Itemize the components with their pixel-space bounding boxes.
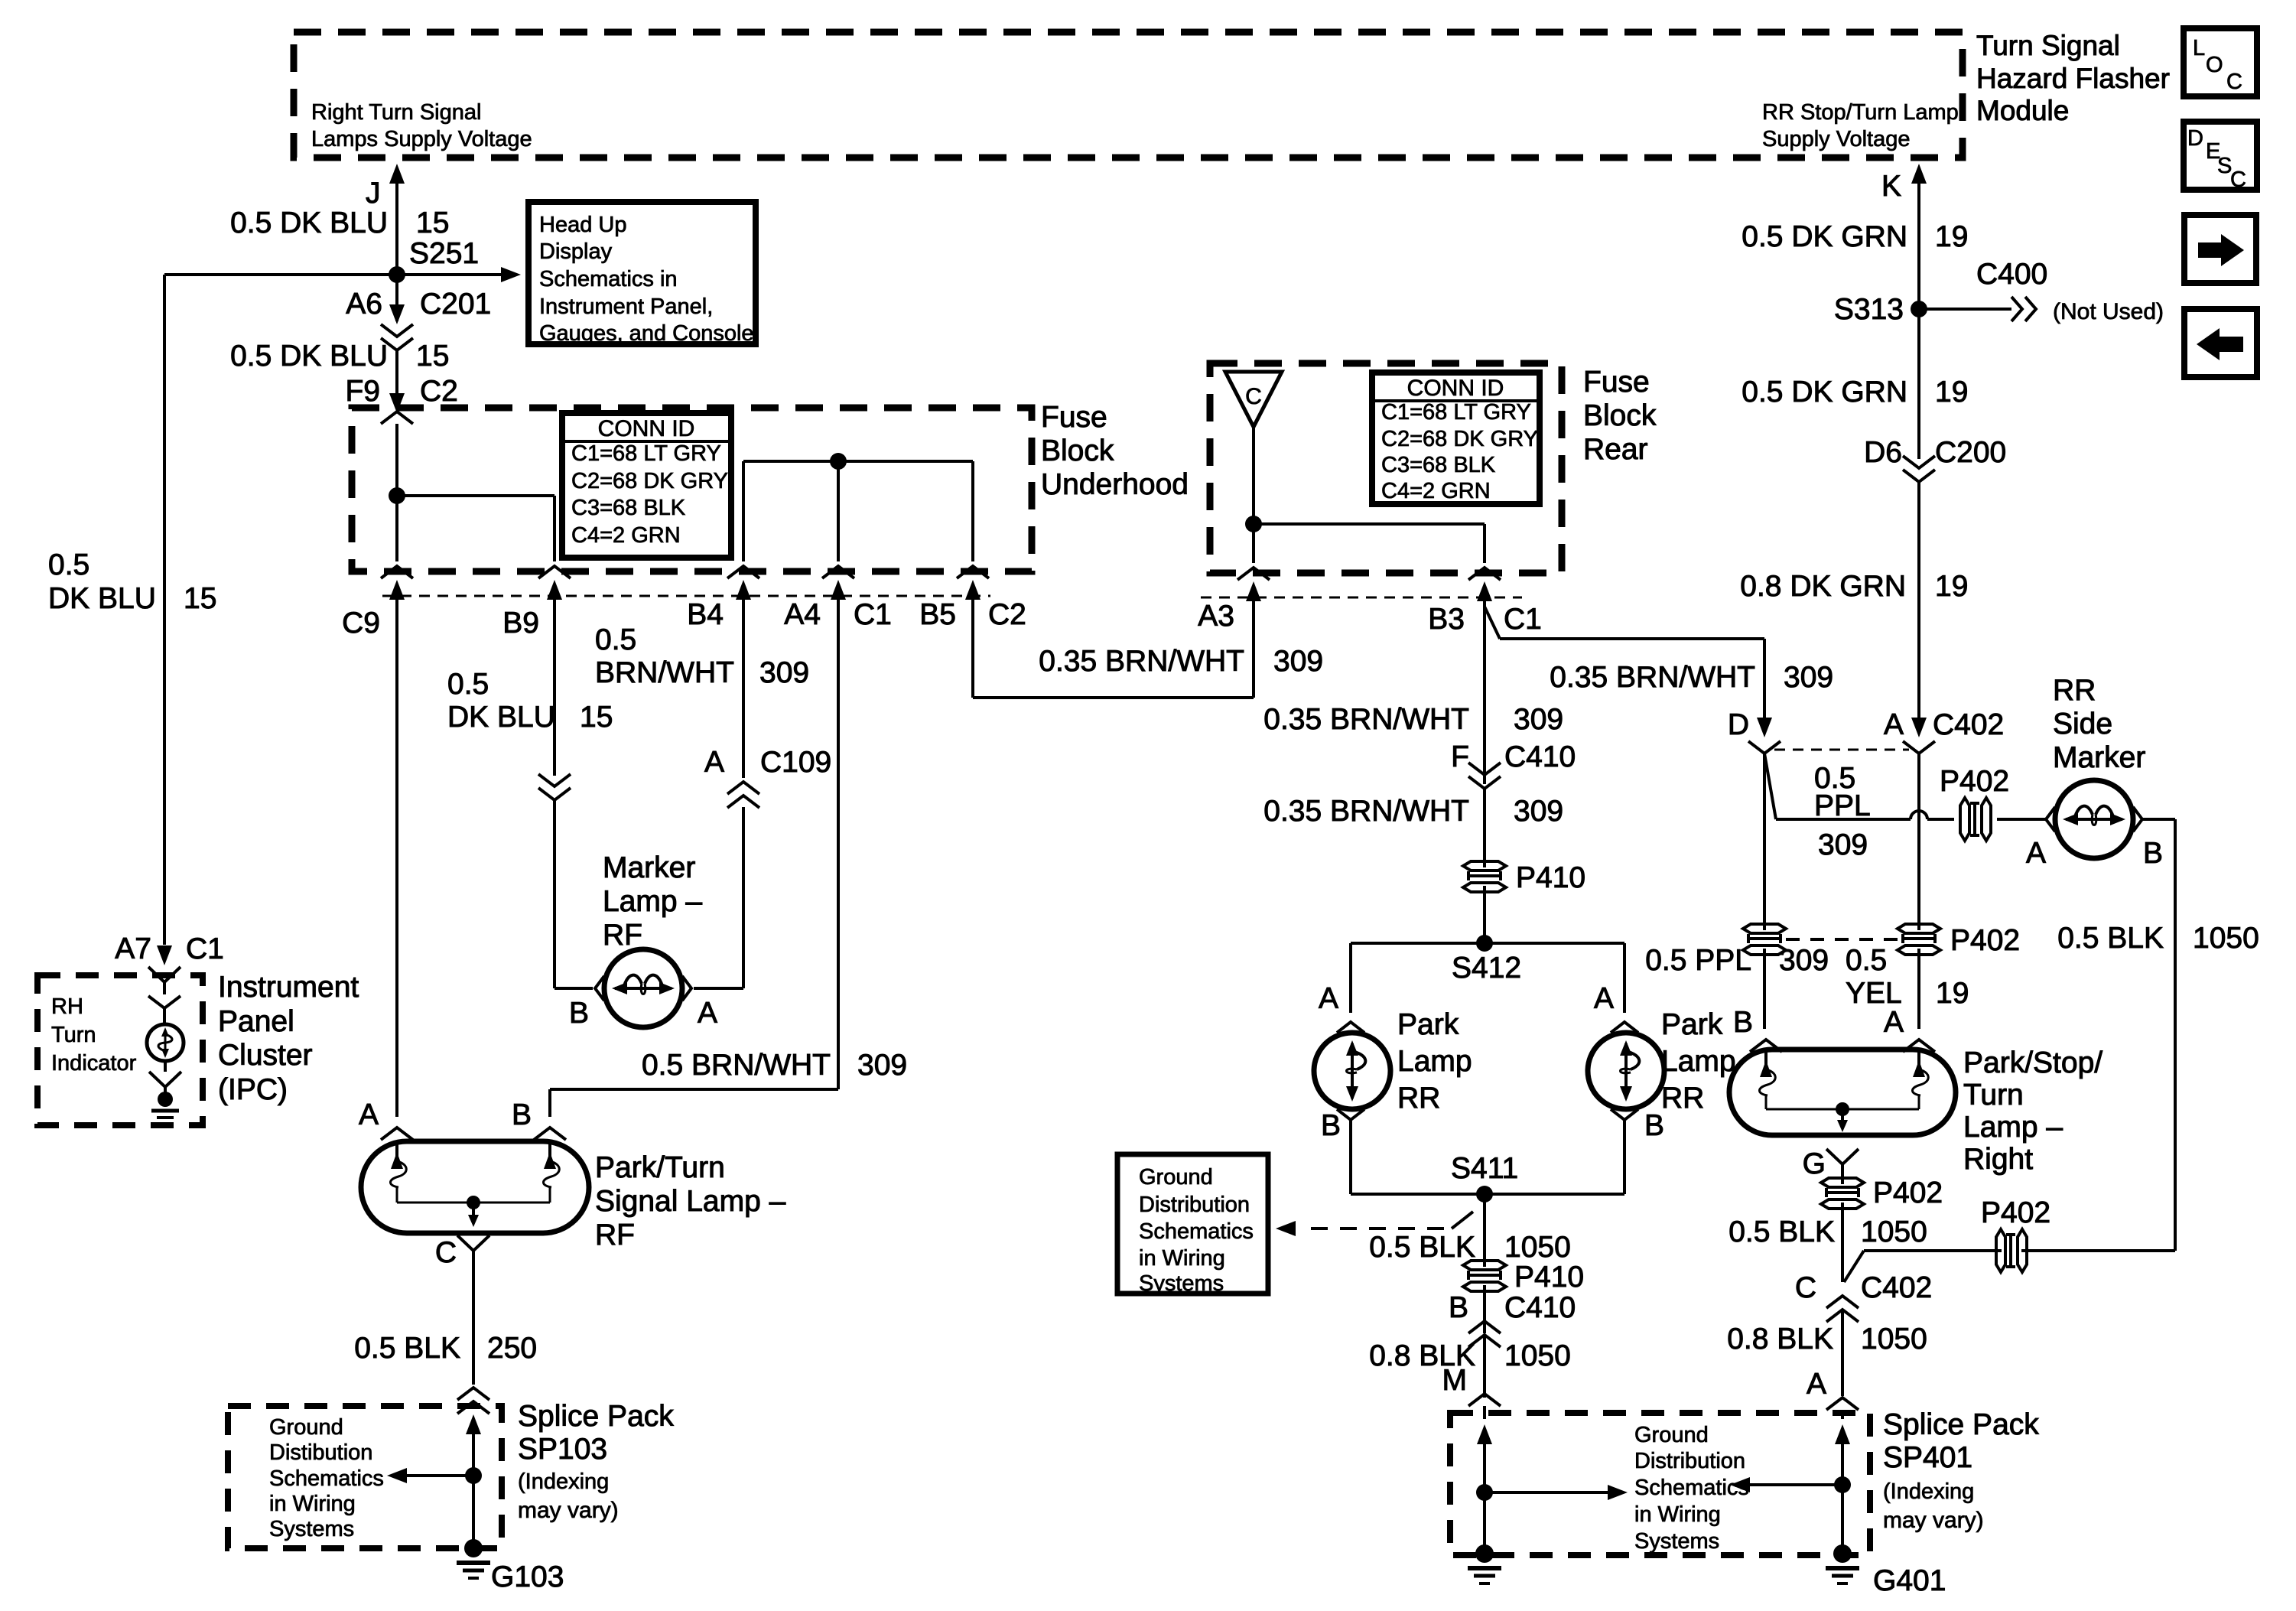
wire C402 C to splice pack A [1841,1310,1844,1396]
svg-text:G103: G103 [491,1561,564,1593]
wire C402 A down to park/stop/turn lamp A [1917,753,1920,930]
connector C410 chevrons F [1468,763,1501,775]
svg-text:A: A [359,1098,379,1131]
ground G401 [1833,1544,1852,1563]
svg-text:C200: C200 [1935,436,2006,469]
svg-text:PPL: PPL [1814,789,1871,822]
wire marker lamp A up to C109 [694,987,743,990]
svg-text:C400: C400 [1976,258,2047,291]
svg-text:F9: F9 [345,375,380,408]
svg-text:P410: P410 [1514,1261,1584,1294]
svg-text:15: 15 [184,582,216,615]
connector P402 grommet on G wire [1821,1178,1864,1187]
svg-text:Park: Park [1661,1008,1723,1041]
svg-text:Display: Display [539,239,613,264]
svg-text:0.5: 0.5 [48,548,89,581]
wire S313 to C400 not used [1919,308,2011,311]
svg-text:Indicator: Indicator [51,1051,137,1076]
icon LOC box [2184,28,2257,96]
svg-text:RR: RR [2053,674,2096,707]
svg-text:C3=68 BLK: C3=68 BLK [1381,453,1496,477]
svg-text:G401: G401 [1873,1564,1946,1597]
svg-text:D6: D6 [1864,436,1902,469]
pin arrow B3/C1 [1477,581,1492,601]
svg-text:Fuse: Fuse [1041,401,1107,434]
svg-text:L: L [2193,36,2205,60]
svg-text:F: F [1451,740,1469,773]
junction S411 [1476,1186,1493,1203]
svg-text:B5: B5 [919,598,956,631]
connector B (marker lamp) chevrons [538,774,571,786]
connector C402 C chevrons [1826,1296,1859,1308]
svg-text:Schematics: Schematics [269,1466,384,1491]
svg-text:A4: A4 [784,598,821,631]
table CONN ID underhood [562,413,731,558]
wire S412 to left park lamp A [1349,943,1352,1013]
svg-text:15: 15 [580,701,613,734]
svg-text:C1: C1 [1504,603,1542,636]
connector chevron C2 entry at box top [381,412,413,424]
svg-text:C410: C410 [1504,1291,1576,1324]
svg-text:YEL: YEL [1846,977,1902,1010]
svg-text:P410: P410 [1516,861,1585,894]
component box Fuse Block Rear [1210,363,1562,573]
wire PPL to park/stop/turn B [1763,949,1766,1029]
wire A into splice pack SP401 [1841,1410,1844,1419]
box Head Up Display note [528,202,756,344]
svg-text:DK BLU: DK BLU [48,582,156,615]
box ground distribution schematics reference (solid) [1117,1154,1268,1294]
wire C201 to C2 of fuse block underhood [395,350,398,395]
svg-text:Side: Side [2053,708,2112,740]
wire M into ground distribution box [1483,1406,1486,1419]
icon left-arrow box [2184,309,2257,377]
svg-text:C402: C402 [1933,708,2004,741]
connector C410 chevrons B [1468,1321,1501,1333]
svg-text:C410: C410 [1504,740,1576,773]
icon DESC box [2184,122,2257,190]
wire inside underhood C2 to splice [395,424,398,496]
component box Fuse Block Underhood [352,408,1032,571]
svg-text:Splice Pack: Splice Pack [518,1400,674,1433]
svg-text:Rear: Rear [1583,433,1648,466]
svg-text:Schematics in: Schematics in [539,267,678,291]
svg-text:0.5 DK GRN: 0.5 DK GRN [1742,376,1907,408]
svg-text:D: D [2187,126,2203,151]
svg-text:0.5 BLK: 0.5 BLK [1729,1216,1835,1248]
connector face C1/C2 below underhood (thin dashed) [382,595,990,597]
svg-text:RF: RF [603,919,642,952]
svg-text:A: A [698,997,717,1030]
svg-text:C1: C1 [186,932,224,965]
svg-text:Distribution: Distribution [1139,1193,1250,1217]
svg-text:Underhood: Underhood [1041,468,1189,501]
svg-text:P402: P402 [1950,924,2020,957]
svg-text:Ground: Ground [269,1415,343,1440]
wire S251 horizontal to Head Up Display arrow [397,273,501,276]
svg-text:B: B [512,1098,532,1131]
svg-text:RR: RR [1661,1082,1704,1115]
chevron B4 at box bottom [727,566,759,578]
svg-text:Systems: Systems [1634,1529,1719,1554]
svg-text:19: 19 [1935,376,1968,408]
wire P410 to C410 B [1483,1285,1486,1333]
svg-text:C2=68 DK GRY: C2=68 DK GRY [1381,427,1538,451]
svg-text:B: B [1321,1109,1341,1142]
svg-text:Block: Block [1583,399,1657,432]
svg-text:0.5 BLK: 0.5 BLK [2057,922,2164,955]
svg-text:B: B [2143,837,2163,870]
lamp Park Lamp RR left [1314,1033,1390,1109]
svg-text:Ground: Ground [1634,1423,1709,1447]
svg-text:B: B [1449,1291,1468,1324]
svg-text:Lamp: Lamp [1397,1045,1472,1078]
svg-text:C402: C402 [1861,1271,1932,1304]
svg-text:309: 309 [1273,645,1323,678]
wire PPL horizontal to RR side marker (with hop over DK GRN) [1776,818,1911,821]
junction ground distribution left [1476,1484,1493,1501]
svg-text:RR Stop/Turn Lamp: RR Stop/Turn Lamp [1762,100,1959,125]
chevron B9 at box bottom [538,566,571,578]
wire indicator to ground [164,1061,167,1072]
wire triangle to junction [1252,427,1255,524]
svg-text:Lamp –: Lamp – [1963,1111,2063,1144]
wire down to C402 pin D [1763,639,1766,719]
svg-text:Splice Pack: Splice Pack [1883,1408,2039,1441]
connector P410 grommet lower [1463,1261,1506,1270]
svg-text:19: 19 [1935,220,1968,253]
svg-text:Ground: Ground [1139,1165,1213,1190]
svg-text:C: C [2230,168,2246,192]
fuse symbol triangle C in fuse block rear [1225,372,1282,427]
svg-text:0.35 BRN/WHT: 0.35 BRN/WHT [1039,645,1244,678]
svg-text:0.5 DK BLU: 0.5 DK BLU [230,340,388,373]
svg-text:0.5 BLK: 0.5 BLK [354,1332,460,1365]
svg-text:(Indexing: (Indexing [518,1469,609,1494]
svg-text:in Wiring: in Wiring [1139,1246,1225,1271]
svg-text:C1=68 LT GRY: C1=68 LT GRY [1381,400,1531,425]
wire C410 to P410 [1483,789,1486,867]
dashed arrow from S411 to reference box [1311,1227,1452,1230]
svg-text:G: G [1803,1147,1826,1180]
svg-text:0.5 BRN/WHT: 0.5 BRN/WHT [642,1049,831,1082]
svg-text:15: 15 [416,207,449,239]
svg-text:S412: S412 [1452,952,1521,984]
svg-text:RF: RF [595,1219,635,1251]
svg-text:C109: C109 [760,746,831,779]
junction inside underhood [389,487,405,504]
junction S412 [1476,935,1493,952]
connector face C402 (thin dashed) [1774,749,1909,751]
wire C terminal down [457,1235,489,1251]
chevron A3 at box bottom [1237,568,1270,580]
svg-text:Fuse: Fuse [1583,366,1650,399]
wire S313 down to C200 [1917,309,1920,459]
svg-text:0.35 BRN/WHT: 0.35 BRN/WHT [1263,795,1469,828]
wire C410 B to splice pack M [1483,1335,1486,1398]
svg-text:0.5 DK GRN: 0.5 DK GRN [1742,220,1907,253]
dashed link between P402 pair [1786,938,1898,941]
svg-text:(Not Used): (Not Used) [2053,299,2164,324]
connector C109 chevrons [727,782,759,794]
wire side marker B horizontal into C402 C [1864,1249,2002,1252]
svg-text:(Indexing: (Indexing [1883,1479,1974,1504]
connector face below fuse block rear (thin dashed) [1201,597,1522,599]
junction fuse block rear [1245,516,1262,532]
pin arrow B5/C2 [965,580,981,600]
svg-text:0.35 BRN/WHT: 0.35 BRN/WHT [1550,661,1755,694]
svg-text:B3: B3 [1428,603,1465,636]
svg-text:19: 19 [1936,977,1969,1010]
svg-text:A: A [1884,708,1904,741]
wire S411 bus [1351,1193,1624,1196]
svg-text:309: 309 [857,1049,907,1082]
wire S251 down to connector C201 [395,282,398,321]
svg-text:A3: A3 [1198,600,1234,633]
connector P402 grommet pair on PPL vertical [1743,924,1786,933]
junction underhood distribution [830,453,847,470]
svg-text:0.5: 0.5 [1846,944,1887,977]
connector P402 grommet pair on YEL vertical [1898,924,1940,933]
svg-text:19: 19 [1935,570,1968,603]
svg-text:Cluster: Cluster [218,1039,313,1072]
svg-text:K: K [1881,170,1901,203]
module box: Turn Signal Hazard Flasher Module [294,32,1963,158]
svg-text:0.5 DK BLU: 0.5 DK BLU [230,207,388,239]
svg-text:C3=68 BLK: C3=68 BLK [571,496,686,520]
svg-text:309: 309 [1514,795,1563,828]
svg-text:C1=68 LT GRY: C1=68 LT GRY [571,441,721,466]
svg-text:A: A [1884,1006,1904,1039]
svg-text:0.35 BRN/WHT: 0.35 BRN/WHT [1263,703,1469,736]
svg-text:309: 309 [1514,703,1563,736]
wire underhood junction to B9 [397,494,554,497]
svg-text:0.5 BLK: 0.5 BLK [1369,1231,1475,1264]
svg-text:B: B [569,997,589,1030]
lamp RR Side Marker [2055,780,2133,858]
chevron B5 at box bottom [957,566,989,578]
svg-text:P402: P402 [1981,1196,2050,1229]
svg-text:in Wiring: in Wiring [1634,1502,1721,1527]
svg-text:15: 15 [416,340,449,373]
svg-text:Right: Right [1963,1143,2033,1176]
svg-text:B: B [1644,1109,1664,1142]
svg-text:Marker: Marker [2053,741,2145,774]
svg-text:Block: Block [1041,434,1114,467]
wire S251 left branch [164,273,397,276]
svg-text:Panel: Panel [218,1005,294,1038]
svg-text:309: 309 [759,656,809,689]
wire junction to A3 [1252,524,1255,563]
svg-text:O: O [2206,53,2223,77]
wire into SP103 [472,1401,475,1409]
wire underhood junction down to C9 [395,496,398,561]
wire P410 to splice S412 [1483,886,1486,943]
connector P410 grommet [1463,861,1506,871]
svg-text:Distribution: Distribution [1634,1449,1745,1473]
svg-text:A: A [1319,982,1338,1015]
box splice pack SP103 (dashed) [228,1406,502,1548]
connector C201 chevrons [381,324,413,337]
svg-text:Lamp –: Lamp – [603,885,702,918]
connector C200 chevrons [1903,456,1935,468]
svg-text:309: 309 [1779,944,1829,977]
svg-text:1050: 1050 [1861,1216,1927,1248]
lamp Park Lamp RR right [1588,1033,1664,1109]
svg-text:A: A [1807,1368,1826,1401]
svg-text:SP103: SP103 [518,1433,607,1466]
wire S251 left branch down to IPC pin A7 [163,275,166,945]
svg-text:309: 309 [1784,661,1833,694]
chevron B3 at box bottom [1468,568,1501,580]
svg-text:C2: C2 [988,598,1026,631]
svg-text:S251: S251 [409,237,479,270]
svg-text:1050: 1050 [1504,1339,1571,1372]
svg-text:1050: 1050 [1861,1323,1927,1356]
svg-text:A7: A7 [115,932,151,965]
svg-text:S313: S313 [1834,293,1904,326]
svg-text:RH: RH [51,994,83,1019]
wire A4/C1 down and across to park/turn B (0.5 BRN/WHT 309) [550,1088,838,1091]
svg-text:A: A [1594,982,1614,1015]
connector chevrons into SP103 [457,1388,489,1400]
lamp Marker Lamp RF [604,949,682,1027]
svg-text:CONN ID: CONN ID [1407,376,1504,401]
wire underhood distribution B4-A4-B5 [743,460,973,463]
wire C200 to C402 pin A [1917,482,1920,719]
svg-text:Supply Voltage: Supply Voltage [1762,127,1910,151]
wire junction to B3 [1254,522,1485,526]
svg-text:C: C [1795,1271,1816,1304]
svg-text:Instrument: Instrument [218,971,359,1004]
svg-text:BRN/WHT: BRN/WHT [595,656,734,689]
svg-text:Marker: Marker [603,851,695,884]
junction SP401 [1834,1476,1851,1493]
pin arrow B9 [547,580,562,600]
arrow to ground distribution text (right-pointing) [1485,1491,1609,1494]
wire G terminal down [1826,1149,1859,1164]
svg-text:CONN ID: CONN ID [598,416,695,441]
svg-text:A: A [2026,837,2046,870]
svg-text:M: M [1442,1364,1468,1397]
lamp Park/Stop/Turn Lamp - Right (dual filament) [1729,1050,1956,1135]
svg-text:A6: A6 [346,288,382,321]
svg-text:Schematics: Schematics [1634,1476,1749,1500]
svg-text:1050: 1050 [1504,1231,1571,1264]
wire C2 underhood to A3 rear (0.35 BRN/WHT 309) [973,696,1254,699]
component box Instrument Panel Cluster (IPC) [37,975,203,1125]
svg-text:Hazard Flasher: Hazard Flasher [1976,63,2170,94]
svg-text:Distibution: Distibution [269,1440,372,1465]
wire K from S313 up to module pin K [1917,170,1920,309]
svg-text:RR: RR [1397,1082,1440,1115]
lamp Park/Turn Signal Lamp - RF (dual filament) [381,1128,413,1140]
svg-text:Gauges, and Console: Gauges, and Console [539,321,754,346]
ground G103 [464,1539,483,1557]
pin arrow B4 [736,580,751,600]
svg-text:Park/Stop/: Park/Stop/ [1963,1046,2102,1079]
svg-text:Right Turn Signal: Right Turn Signal [311,100,481,125]
svg-text:Lamp: Lamp [1661,1045,1736,1078]
svg-text:C2=68 DK GRY: C2=68 DK GRY [571,469,728,493]
svg-text:C2: C2 [420,375,458,408]
svg-text:C9: C9 [342,607,380,640]
svg-text:B: B [1733,1006,1753,1039]
svg-text:may vary): may vary) [1883,1508,1984,1533]
svg-text:B9: B9 [502,607,539,640]
svg-text:0.5: 0.5 [447,668,489,701]
svg-text:Turn Signal: Turn Signal [1976,30,2120,61]
wire side marker B down right side [2142,818,2175,821]
svg-text:Schematics: Schematics [1139,1219,1254,1244]
svg-text:309: 309 [1818,828,1868,861]
svg-text:Systems: Systems [269,1517,354,1541]
svg-text:C: C [1245,384,1262,409]
icon right-arrow box [2184,215,2256,283]
svg-text:Park/Turn: Park/Turn [595,1151,725,1184]
svg-text:B4: B4 [687,598,724,631]
svg-text:Turn: Turn [51,1023,96,1047]
svg-text:Turn: Turn [1963,1079,2024,1111]
svg-text:1050: 1050 [2193,922,2259,955]
svg-text:Lamps Supply Voltage: Lamps Supply Voltage [311,127,532,151]
wire B to marker lamp [553,800,556,988]
svg-text:250: 250 [487,1332,537,1365]
svg-text:J: J [366,177,381,210]
svg-text:Park: Park [1397,1008,1459,1041]
svg-text:C: C [2226,70,2242,94]
svg-text:S411: S411 [1451,1152,1518,1185]
arrow to ground distribution text (left-pointing) [1748,1483,1842,1486]
svg-text:0.8 DK GRN: 0.8 DK GRN [1740,570,1906,603]
connector into IPC [148,967,180,982]
svg-text:0.5 PPL: 0.5 PPL [1645,944,1751,977]
wire S411 down to P410 [1483,1194,1486,1267]
svg-text:(IPC): (IPC) [218,1073,288,1106]
svg-text:C201: C201 [420,288,491,321]
table CONN ID rear [1372,373,1540,504]
svg-text:D: D [1728,708,1749,741]
wire S412 to right park lamp A [1623,943,1626,1013]
svg-text:Systems: Systems [1139,1271,1224,1296]
svg-text:C: C [435,1236,457,1269]
junction S313 [1911,301,1927,317]
junction SP103 [465,1467,482,1484]
svg-text:in Wiring: in Wiring [269,1492,356,1516]
svg-text:P402: P402 [1873,1177,1943,1209]
svg-text:P402: P402 [1940,765,2009,798]
svg-text:0.8 BLK: 0.8 BLK [1727,1323,1833,1356]
svg-text:A: A [704,746,724,779]
pin arrow C9 [389,580,405,600]
wire P402 down to C402 C [1841,1203,1844,1282]
chevron A4 at box bottom [822,566,854,578]
ground IPC internal [158,1092,173,1107]
wire B3 down to C410 pin F [1483,608,1486,784]
wire D to PPL horizontal [1764,753,1776,819]
chevron C9 at box bottom [381,566,413,578]
wire J from S251 up to module pin J [395,170,398,275]
ground G401 left leg [1475,1544,1494,1563]
pin arrow A4/C1 [831,580,846,600]
svg-text:Instrument Panel,: Instrument Panel, [539,295,713,319]
svg-text:SP401: SP401 [1883,1441,1972,1474]
pin arrow A3 [1246,581,1261,601]
svg-text:C4=2 GRN: C4=2 GRN [1381,479,1491,503]
lamp RH turn indicator bulb [147,1024,184,1061]
connector P402 grommet on PPL horizontal [1960,798,1969,841]
svg-text:C4=2 GRN: C4=2 GRN [571,523,681,548]
